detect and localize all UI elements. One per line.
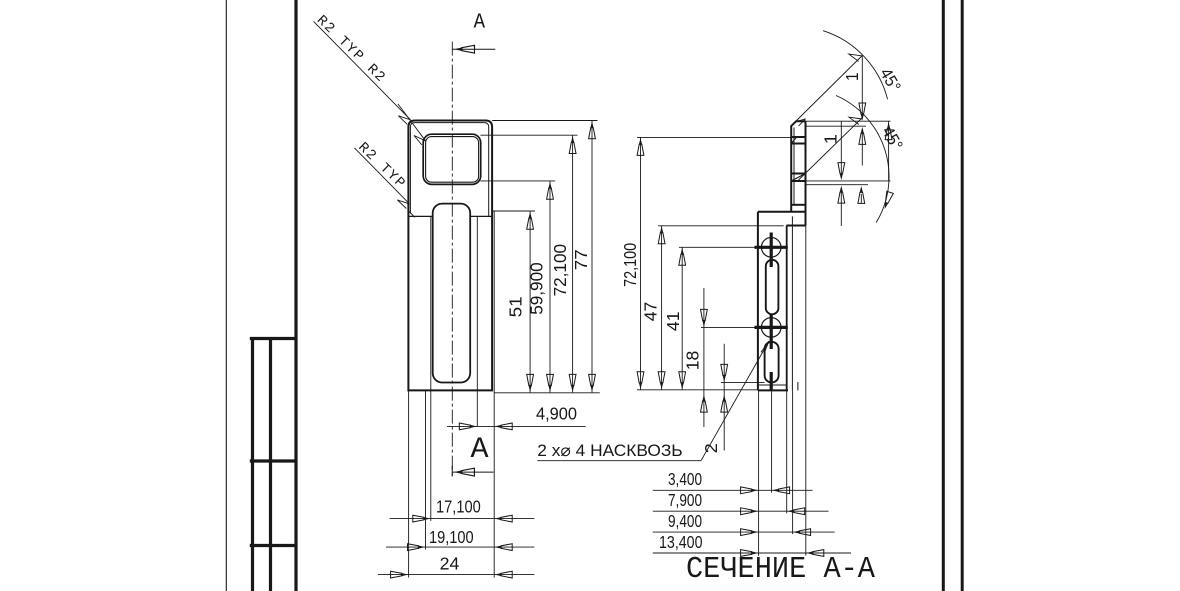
total dim vertical right [888, 121, 890, 181]
dimension 72,100 line (front) [572, 136, 574, 393]
svg-text:45°: 45° [876, 65, 904, 95]
svg-text:3,400: 3,400 [668, 469, 702, 489]
svg-text:17,100: 17,100 [436, 496, 481, 516]
section bar pocket top edge [791, 136, 805, 138]
arc 2 end arrowhead [881, 191, 893, 210]
svg-text:2 x⌀ 4 НАСКВОЗЬ: 2 x⌀ 4 НАСКВОЗЬ [537, 441, 682, 460]
dim 2 lower arrow [838, 186, 845, 204]
ext line 17,100 [430, 216, 432, 521]
section bar chamfer inner [791, 174, 805, 182]
arrows 4,900 [459, 423, 477, 430]
dimension 51 line [529, 211, 531, 392]
dimension 72,100 line (section) [640, 137, 642, 389]
ext line pocket bottom [480, 180, 555, 182]
svg-text:4,900: 4,900 [536, 404, 577, 424]
svg-text:41: 41 [663, 312, 683, 332]
chamfer arc 2 [836, 96, 889, 223]
center bar bottom segment [770, 372, 773, 390]
chamfer leader 1 start arrowhead [795, 119, 806, 126]
svg-text:45°: 45° [878, 123, 906, 153]
chamfer aux up arrow [858, 186, 865, 204]
leader R2 TYP R2 arrowhead [398, 116, 410, 125]
chamfer group 1 [794, 31, 894, 226]
ext line chamfer bottom [806, 125, 866, 127]
svg-text:72,100: 72,100 [550, 244, 570, 297]
leader R2 TYP R2 line [314, 21, 426, 208]
section ext line step 47 [658, 225, 784, 227]
arrows section left dims [637, 138, 644, 156]
ext line 7,900 down [786, 390, 788, 513]
ext line 13,400 down [805, 225, 807, 555]
section bar right edge [805, 121, 807, 225]
leader R2 TYP line 2 [355, 148, 410, 204]
total dim upper arrow [885, 122, 892, 140]
dimension 18 line [703, 288, 705, 427]
ext line below left edge [758, 390, 760, 556]
frame: right inner thick border line [942, 0, 945, 591]
svg-text:19,100: 19,100 [429, 527, 474, 547]
front view pocket outer contour [423, 134, 481, 184]
front view centerline [451, 42, 453, 478]
leader R2 branch arrowhead [414, 136, 426, 145]
dimension 13,400 line [653, 552, 851, 554]
section step top face [758, 211, 806, 213]
svg-text:2: 2 [701, 443, 721, 453]
section inner corner vertical [786, 226, 788, 391]
section cut line A bottom [452, 471, 493, 473]
arrows 17,100 [413, 515, 431, 522]
section hidden edge slot left [791, 216, 793, 390]
dimension 77 line [591, 121, 593, 393]
section bar pocket bottom edge [791, 180, 805, 182]
svg-text:СЕЧЕНИЕ А-А: СЕЧЕНИЕ А-А [686, 552, 875, 587]
ext line pocket top [480, 134, 577, 136]
section bar top small diagonal [791, 137, 796, 143]
svg-text:59,900: 59,900 [527, 262, 547, 315]
ext line bottom common [494, 392, 600, 394]
chamfer 45 leader 1 [794, 56, 863, 124]
ext line chamfer2 bottom [806, 184, 868, 186]
section inner bottom line [759, 384, 787, 386]
section cut arrow bottom [454, 468, 474, 476]
leader R2 branch to pocket corner [398, 104, 426, 141]
svg-text:18: 18 [682, 351, 702, 371]
section bar bottom line [792, 204, 806, 206]
ext line step [492, 210, 535, 212]
frame: left thin border line [225, 0, 227, 591]
ext line chamfer2 top [806, 180, 891, 182]
leader R2 TYP 2 arrowhead [397, 200, 409, 209]
front view outer contour [408, 121, 492, 391]
dimension 41 line [681, 247, 683, 389]
dimension 19,100 line [386, 546, 534, 548]
section bar inner vertical line [793, 128, 795, 205]
dim 1 lower arrow [859, 127, 866, 144]
frame: left thick border line [294, 0, 297, 591]
svg-text:24: 24 [440, 554, 460, 574]
arrows 9,400 [741, 529, 759, 536]
hole 2 cross horizontal [755, 326, 788, 329]
arrows 13,400 [741, 550, 759, 557]
arc 1 arrowhead [849, 54, 863, 61]
front view step tick [409, 212, 415, 218]
svg-text:13,400: 13,400 [659, 532, 703, 552]
front view step line right [470, 215, 492, 217]
ext line top of part [492, 120, 597, 122]
dimension 2 line [723, 344, 725, 451]
section cut line A bottom tick [451, 466, 453, 477]
section ext line slot bottom [721, 381, 765, 383]
dimension 9,400 line [653, 531, 835, 533]
svg-text:А: А [474, 10, 485, 34]
dim 1 upper arrow [859, 103, 866, 121]
section bottom edge [758, 389, 788, 391]
section view body [758, 121, 806, 390]
dimension 3,400 line [653, 489, 813, 491]
arrows 7,900 [741, 508, 759, 515]
hole 2 target circle [761, 318, 781, 338]
front view pocket inner contour [426, 137, 479, 183]
hole 2 cross vertical [770, 315, 773, 349]
chamfer dim line 2 vertical [840, 121, 842, 178]
svg-text:1: 1 [842, 73, 862, 82]
svg-text:1: 1 [821, 134, 841, 144]
section cut arrow top [454, 45, 474, 53]
hole 1 cross vertical [770, 233, 773, 268]
section ext line bottom [637, 389, 758, 391]
chamfer arc 1 [823, 31, 888, 100]
section ext line pocket top [637, 136, 793, 138]
title block column lines [250, 337, 296, 591]
ext line hole axis down [771, 390, 773, 492]
front view step line left [408, 215, 432, 217]
section ext line hole1 center [679, 246, 755, 248]
arrows 19,100 [408, 544, 426, 551]
svg-text:9,400: 9,400 [668, 511, 702, 531]
svg-text:77: 77 [571, 249, 591, 270]
section inner corner line right [786, 225, 805, 227]
ext line bar top right [806, 120, 891, 122]
note leader arrowhead [761, 341, 769, 354]
chamfer 45 leader 2 [798, 118, 863, 182]
section cut line A top [452, 48, 495, 50]
section bar left edge [791, 121, 805, 212]
dimension 17,100 line [390, 518, 535, 520]
svg-text:47: 47 [641, 302, 661, 322]
section bar pocket line 2 [791, 143, 805, 145]
svg-text:51: 51 [506, 296, 526, 317]
chamfer dim line 1 vertical [861, 56, 863, 119]
arrows 3,400 [741, 487, 759, 494]
arc 2 arrowhead [849, 117, 863, 124]
note leader line [701, 341, 769, 461]
svg-text:72,100: 72,100 [620, 243, 640, 287]
section bar pocket line 3 [791, 173, 805, 175]
ext line 19,100 [425, 390, 427, 549]
ext line right common down [493, 211, 495, 578]
ext line left edge down [408, 390, 410, 577]
svg-text:А: А [471, 433, 489, 467]
svg-text:R2 TYP R2: R2 TYP R2 [313, 13, 389, 87]
section hidden edge slot right [797, 382, 799, 390]
hole 1 target circle [761, 238, 781, 258]
dimension 4,900 line [447, 425, 586, 427]
svg-text:R2 TYP: R2 TYP [355, 140, 409, 193]
section ext line hole2 center [701, 326, 755, 328]
dimension 7,900 line [653, 510, 829, 512]
arrows 24 [391, 571, 409, 578]
dimension 59,900 line [549, 181, 551, 392]
slot 1 capsule [766, 260, 779, 315]
frame: right outer thick border line [961, 0, 964, 591]
front view inner tangent contour (top block) [410, 123, 488, 217]
ext line 9,400 down [792, 390, 794, 534]
hole 1 cross horizontal [755, 246, 788, 249]
note underline [537, 460, 701, 462]
section left outer edge [757, 212, 759, 391]
dimension 47 line [661, 226, 663, 390]
dimension 24 line [378, 574, 534, 576]
ext line 4,900 left [476, 216, 478, 426]
dim 2 upper arrow [838, 163, 845, 181]
svg-text:7,900: 7,900 [668, 490, 702, 510]
arrows for right-side vertical dimensions [527, 121, 596, 392]
slot 2 capsule [765, 342, 779, 383]
front view slot [433, 204, 471, 383]
